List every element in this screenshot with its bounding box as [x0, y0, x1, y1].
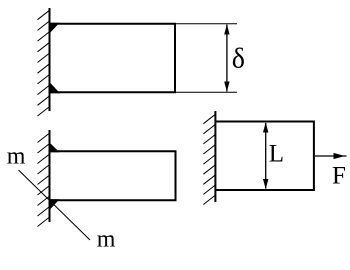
weld fillet triangle bottom (outside beam B2, below) — [49, 199, 60, 211]
dimension line L — [265, 123, 267, 189]
arrowhead down (delta bottom) — [224, 82, 229, 92]
svg-text:F: F — [332, 163, 346, 190]
weld fillet triangle bottom (inside beam B1) — [49, 81, 61, 93]
beam B2 outline (bottom-left cantilever) — [50, 151, 176, 200]
hatching of wall W3 — [203, 115, 215, 205]
svg-text:m: m — [7, 144, 26, 170]
beam B3 outline (bottom-right block) — [215, 122, 314, 191]
force arrow F head — [334, 153, 345, 159]
svg-text:L: L — [269, 141, 284, 168]
wall W1 (top-left figure) — [49, 8, 51, 111]
beam B1 outline (top-left cantilever) — [50, 24, 176, 93]
extension line bottom for delta dimension — [176, 91, 237, 93]
weld fillet triangle top (outside beam B2, above) — [49, 142, 60, 153]
svg-text:m: m — [97, 227, 116, 253]
hatching of wall W1 — [38, 11, 50, 116]
weld fillet triangle top (inside beam B1) — [49, 23, 60, 35]
wall W2 (bottom-left figure) — [49, 130, 51, 222]
arrowhead up (L top) — [263, 122, 268, 132]
force arrow F shaft — [315, 155, 347, 157]
dimension line delta — [226, 25, 228, 92]
wall W3 (bottom-right figure) — [214, 111, 216, 202]
arrowhead up (delta top) — [224, 24, 229, 34]
hatching of wall W2 — [38, 134, 50, 227]
extension line top for delta dimension — [176, 23, 237, 25]
svg-text:δ: δ — [232, 44, 245, 75]
leader line m1 to m2 through weld corner — [19, 170, 91, 240]
arrowhead down (L bottom) — [263, 179, 268, 189]
